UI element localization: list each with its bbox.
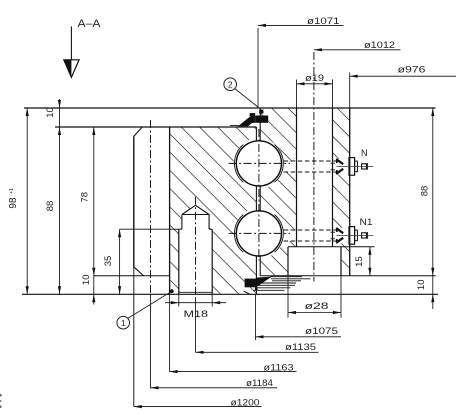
- outer ring OD top chamfer: [134, 127, 142, 136]
- fitting thread hidden dashes N1: [331, 231, 337, 233]
- outer ring bottom relief surface y275.7 left: [94, 275, 170, 277]
- fitting thread hidden dashes N: [331, 162, 337, 164]
- svg-text:ø1135: ø1135: [285, 342, 316, 353]
- leader dot item 2: [259, 110, 263, 114]
- lower ball: [236, 211, 281, 256]
- dimension 35: [119, 229, 121, 294]
- svg-text:98: 98: [8, 197, 19, 209]
- outer ring OD line x133.8: [133, 136, 135, 406]
- balloon 1: [117, 316, 130, 329]
- upper ball raceway arcs: [234, 145, 243, 183]
- pilot hole walls: [181, 215, 183, 230]
- outer ring top surface line y127: [55, 126, 256, 128]
- ø19 extension lines above: [296, 80, 298, 109]
- dimension ø976: [350, 75, 456, 77]
- dimension 98: [26, 108, 28, 294]
- svg-text:ø1075: ø1075: [305, 326, 338, 337]
- svg-text:ø1071: ø1071: [307, 16, 340, 27]
- dimension ø1163: [170, 371, 297, 373]
- svg-text:N: N: [361, 148, 368, 158]
- svg-text:88: 88: [419, 186, 430, 197]
- centerline ø1184 bolt circle: [150, 120, 152, 294]
- plug hole M18 cutout: [179, 205, 212, 294]
- svg-text:ø976: ø976: [398, 65, 426, 76]
- svg-text:10: 10: [81, 275, 92, 286]
- svg-text:N1: N1: [360, 217, 373, 227]
- svg-text:ø1200: ø1200: [231, 398, 260, 409]
- thread relief line: [179, 291, 212, 293]
- dimension ø28: [288, 312, 341, 314]
- grease channel N1 dashed lines: [284, 229, 337, 231]
- grease channel band N1: [284, 230, 337, 241]
- upper ball: [236, 141, 281, 186]
- bolt counterbore cutout: [288, 247, 341, 276]
- centerline plug hole ø1135: [195, 197, 197, 299]
- dimension 78 / 10 bottom-left: [93, 127, 95, 305]
- grease fitting seat N1: [336, 228, 350, 244]
- thread step ticks: [179, 228, 182, 230]
- svg-text:A–A: A–A: [78, 18, 102, 30]
- inner ring bore line x349.7: [349, 108, 351, 276]
- grease fitting seat N: [336, 159, 350, 175]
- lower ball raceway arcs: [234, 215, 243, 253]
- dimension ø1135: [196, 351, 319, 353]
- grease fitting N: [336, 158, 373, 176]
- svg-text:88: 88: [45, 201, 56, 212]
- M18 hole left wall: [178, 229, 180, 294]
- ball centerline vertical: [258, 129, 260, 261]
- edge artifacts: [0, 394, 2, 397]
- svg-text:78: 78: [80, 192, 91, 203]
- ø28 extension lines: [287, 276, 289, 318]
- outer ring hole wall / step x169.6: [169, 127, 171, 294]
- inner ring top surface line y108: [24, 107, 436, 109]
- svg-text:ø19: ø19: [305, 73, 324, 84]
- dimension ø1075: [255, 294, 257, 340]
- outer ring section hatch (left ring): [170, 127, 256, 294]
- M18 hole right wall: [211, 229, 213, 294]
- svg-text:1: 1: [121, 318, 126, 328]
- svg-text:35: 35: [103, 256, 114, 267]
- dimension 10 top / 88 left: [59, 99, 61, 294]
- dimension ø1184: [151, 387, 278, 389]
- section arrow A-A: [70, 27, 72, 60]
- svg-text:15: 15: [354, 256, 365, 267]
- seam gap strip: [256, 127, 260, 294]
- svg-text:ø1163: ø1163: [264, 362, 294, 373]
- dimension ø1071: [257, 28, 259, 107]
- counterbore top surface y246.8 + 15-dim extension: [288, 246, 375, 248]
- dimension ø1012: [314, 49, 401, 51]
- M18 extension lines: [178, 294, 180, 306]
- inner ring section hatch left strip (right ring): [260, 108, 296, 276]
- bolt hole ø19 left wall: [296, 108, 298, 247]
- svg-text:ø1012: ø1012: [364, 40, 395, 51]
- bottom surface line y294.3: [22, 293, 438, 295]
- drill cone: [182, 205, 196, 214]
- dimension ø19: [297, 83, 333, 85]
- M18 thread top extension line y229.2: [120, 228, 179, 230]
- outer ring OD bottom chamfer: [134, 267, 144, 276]
- ball pockets: [234, 138, 285, 189]
- seal item 1 (bottom, black): [245, 279, 257, 288]
- cone base line: [182, 214, 209, 216]
- ball 2 centerline horizontal: [229, 232, 290, 234]
- svg-text:M18: M18: [184, 309, 209, 320]
- svg-text:2: 2: [228, 79, 233, 89]
- centerline ø19 hole / ø1012: [313, 52, 315, 282]
- inner ring bottom surface y275.7 right + extension: [260, 275, 436, 277]
- ø976 extension above: [349, 73, 351, 109]
- dimension 15: [369, 247, 371, 276]
- grease channel band N: [284, 161, 337, 172]
- grease channel N dashed lines: [284, 160, 337, 162]
- svg-text:ø28: ø28: [305, 301, 329, 312]
- seal 1 lip lines: [270, 276, 302, 278]
- grease fitting N1: [336, 227, 373, 245]
- dimension M18: [165, 302, 226, 304]
- seam right line: [259, 108, 261, 141]
- svg-text:10: 10: [416, 280, 427, 291]
- svg-text:10: 10: [45, 107, 56, 118]
- seal item 2 (top, black): [238, 115, 255, 126]
- svg-text:+1: +1: [9, 188, 15, 194]
- dimension 88 right / 10 right: [432, 108, 434, 309]
- svg-text:ø1184: ø1184: [246, 378, 273, 389]
- seam left line: [255, 127, 257, 141]
- bolt hole ø19 right wall: [332, 108, 334, 247]
- ball 1 centerline horizontal: [229, 162, 290, 164]
- inner ring section hatch right strip: [333, 108, 350, 276]
- counterbore walls: [287, 247, 289, 276]
- balloon 2: [224, 78, 237, 91]
- dimension ø1200: [134, 406, 262, 408]
- outer ring bottom chamfer at seam: [244, 291, 251, 294]
